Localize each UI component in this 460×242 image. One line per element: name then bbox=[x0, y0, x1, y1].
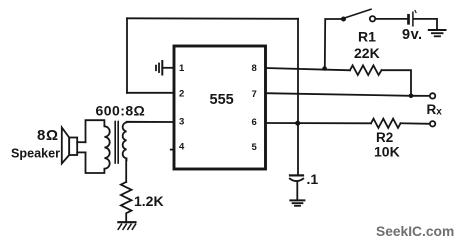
wire pin 6 to R2 bbox=[266, 122, 372, 124]
junction dot on pin 8 line bbox=[322, 66, 327, 71]
transformer T1 secondary winding bbox=[123, 122, 174, 161]
svg-text:4: 4 bbox=[179, 142, 185, 153]
svg-text:1: 1 bbox=[179, 63, 185, 74]
transformer core lines bbox=[114, 122, 116, 164]
speaker driver box bbox=[69, 138, 77, 156]
wire left vertical to pin 2 bbox=[126, 18, 128, 93]
svg-text:22K: 22K bbox=[354, 45, 380, 61]
wire R2 to Rx bottom terminal bbox=[401, 122, 430, 125]
wire speaker bottom lead bbox=[77, 151, 85, 153]
capacitor C1 .1 top plate bbox=[290, 174, 303, 176]
pin 4 stub bbox=[171, 149, 174, 151]
wire top horizontal (pin2/6 net) bbox=[127, 17, 298, 20]
switch S1 lever bbox=[345, 9, 372, 18]
resistor R1 22K zigzag bbox=[350, 65, 382, 75]
svg-text:8Ω: 8Ω bbox=[37, 127, 59, 144]
svg-text:9v.: 9v. bbox=[402, 27, 423, 43]
ground at pin 1 (sideways) bbox=[156, 61, 174, 75]
wire switch branch corner to pin8 junction bbox=[325, 19, 344, 69]
ground below capacitor bbox=[290, 200, 304, 205]
wire pin 8 to R1 bbox=[266, 68, 351, 70]
wire cap to ground bbox=[296, 182, 298, 200]
wire battery to ground bbox=[414, 19, 437, 30]
svg-text:SeekIC.com: SeekIC.com bbox=[376, 224, 454, 239]
terminal Rx bottom (open circle) bbox=[430, 121, 435, 126]
junction dot R1/pin7 bbox=[409, 94, 414, 99]
resistor 1.2K vertical zigzag bbox=[121, 182, 132, 221]
svg-text:600:8Ω: 600:8Ω bbox=[96, 102, 146, 118]
wire R1 to corner bbox=[382, 70, 412, 96]
svg-text:2: 2 bbox=[179, 89, 184, 100]
svg-text:R1: R1 bbox=[358, 29, 376, 45]
battery B1 positive plate bbox=[412, 12, 414, 25]
svg-text:Rx: Rx bbox=[427, 102, 443, 118]
svg-text:5: 5 bbox=[252, 142, 258, 153]
ground below 1.2K (with hatches) bbox=[118, 222, 135, 229]
switch S1 open terminal bbox=[370, 16, 375, 21]
IC U1 555 timer box bbox=[174, 46, 266, 169]
battery tick mark bbox=[415, 11, 416, 13]
svg-text:Speaker: Speaker bbox=[11, 146, 60, 160]
resistor R2 10K zigzag bbox=[371, 119, 400, 128]
battery B1 9v negative plate bbox=[407, 15, 410, 23]
terminal Rx top (open circle) bbox=[430, 93, 435, 98]
wire winding to resistor bbox=[125, 160, 127, 182]
junction dot pin6/vertical bbox=[295, 121, 300, 126]
switch S1 pivot dot bbox=[341, 17, 346, 22]
wire speaker top lead bbox=[77, 141, 85, 143]
wire long vertical x=298 (pin6 to cap) bbox=[297, 19, 299, 175]
svg-text:555: 555 bbox=[210, 92, 234, 108]
wire switch to battery bbox=[375, 18, 407, 20]
capacitor C1 curved bottom plate bbox=[290, 179, 303, 182]
svg-text:1.2K: 1.2K bbox=[134, 193, 164, 209]
wire pin 2 horizontal bbox=[127, 92, 174, 94]
svg-text:.1: .1 bbox=[307, 171, 319, 187]
transformer T1 primary loop with winding bumps bbox=[86, 120, 110, 173]
speaker SP1 cone bbox=[62, 128, 69, 164]
svg-text:10K: 10K bbox=[374, 143, 400, 159]
svg-text:3: 3 bbox=[179, 117, 184, 128]
svg-text:6: 6 bbox=[252, 117, 257, 128]
ground at battery bbox=[429, 30, 446, 36]
svg-text:8: 8 bbox=[252, 63, 257, 74]
wire pin 7 to Rx terminal bbox=[266, 93, 430, 96]
svg-text:7: 7 bbox=[252, 89, 257, 100]
